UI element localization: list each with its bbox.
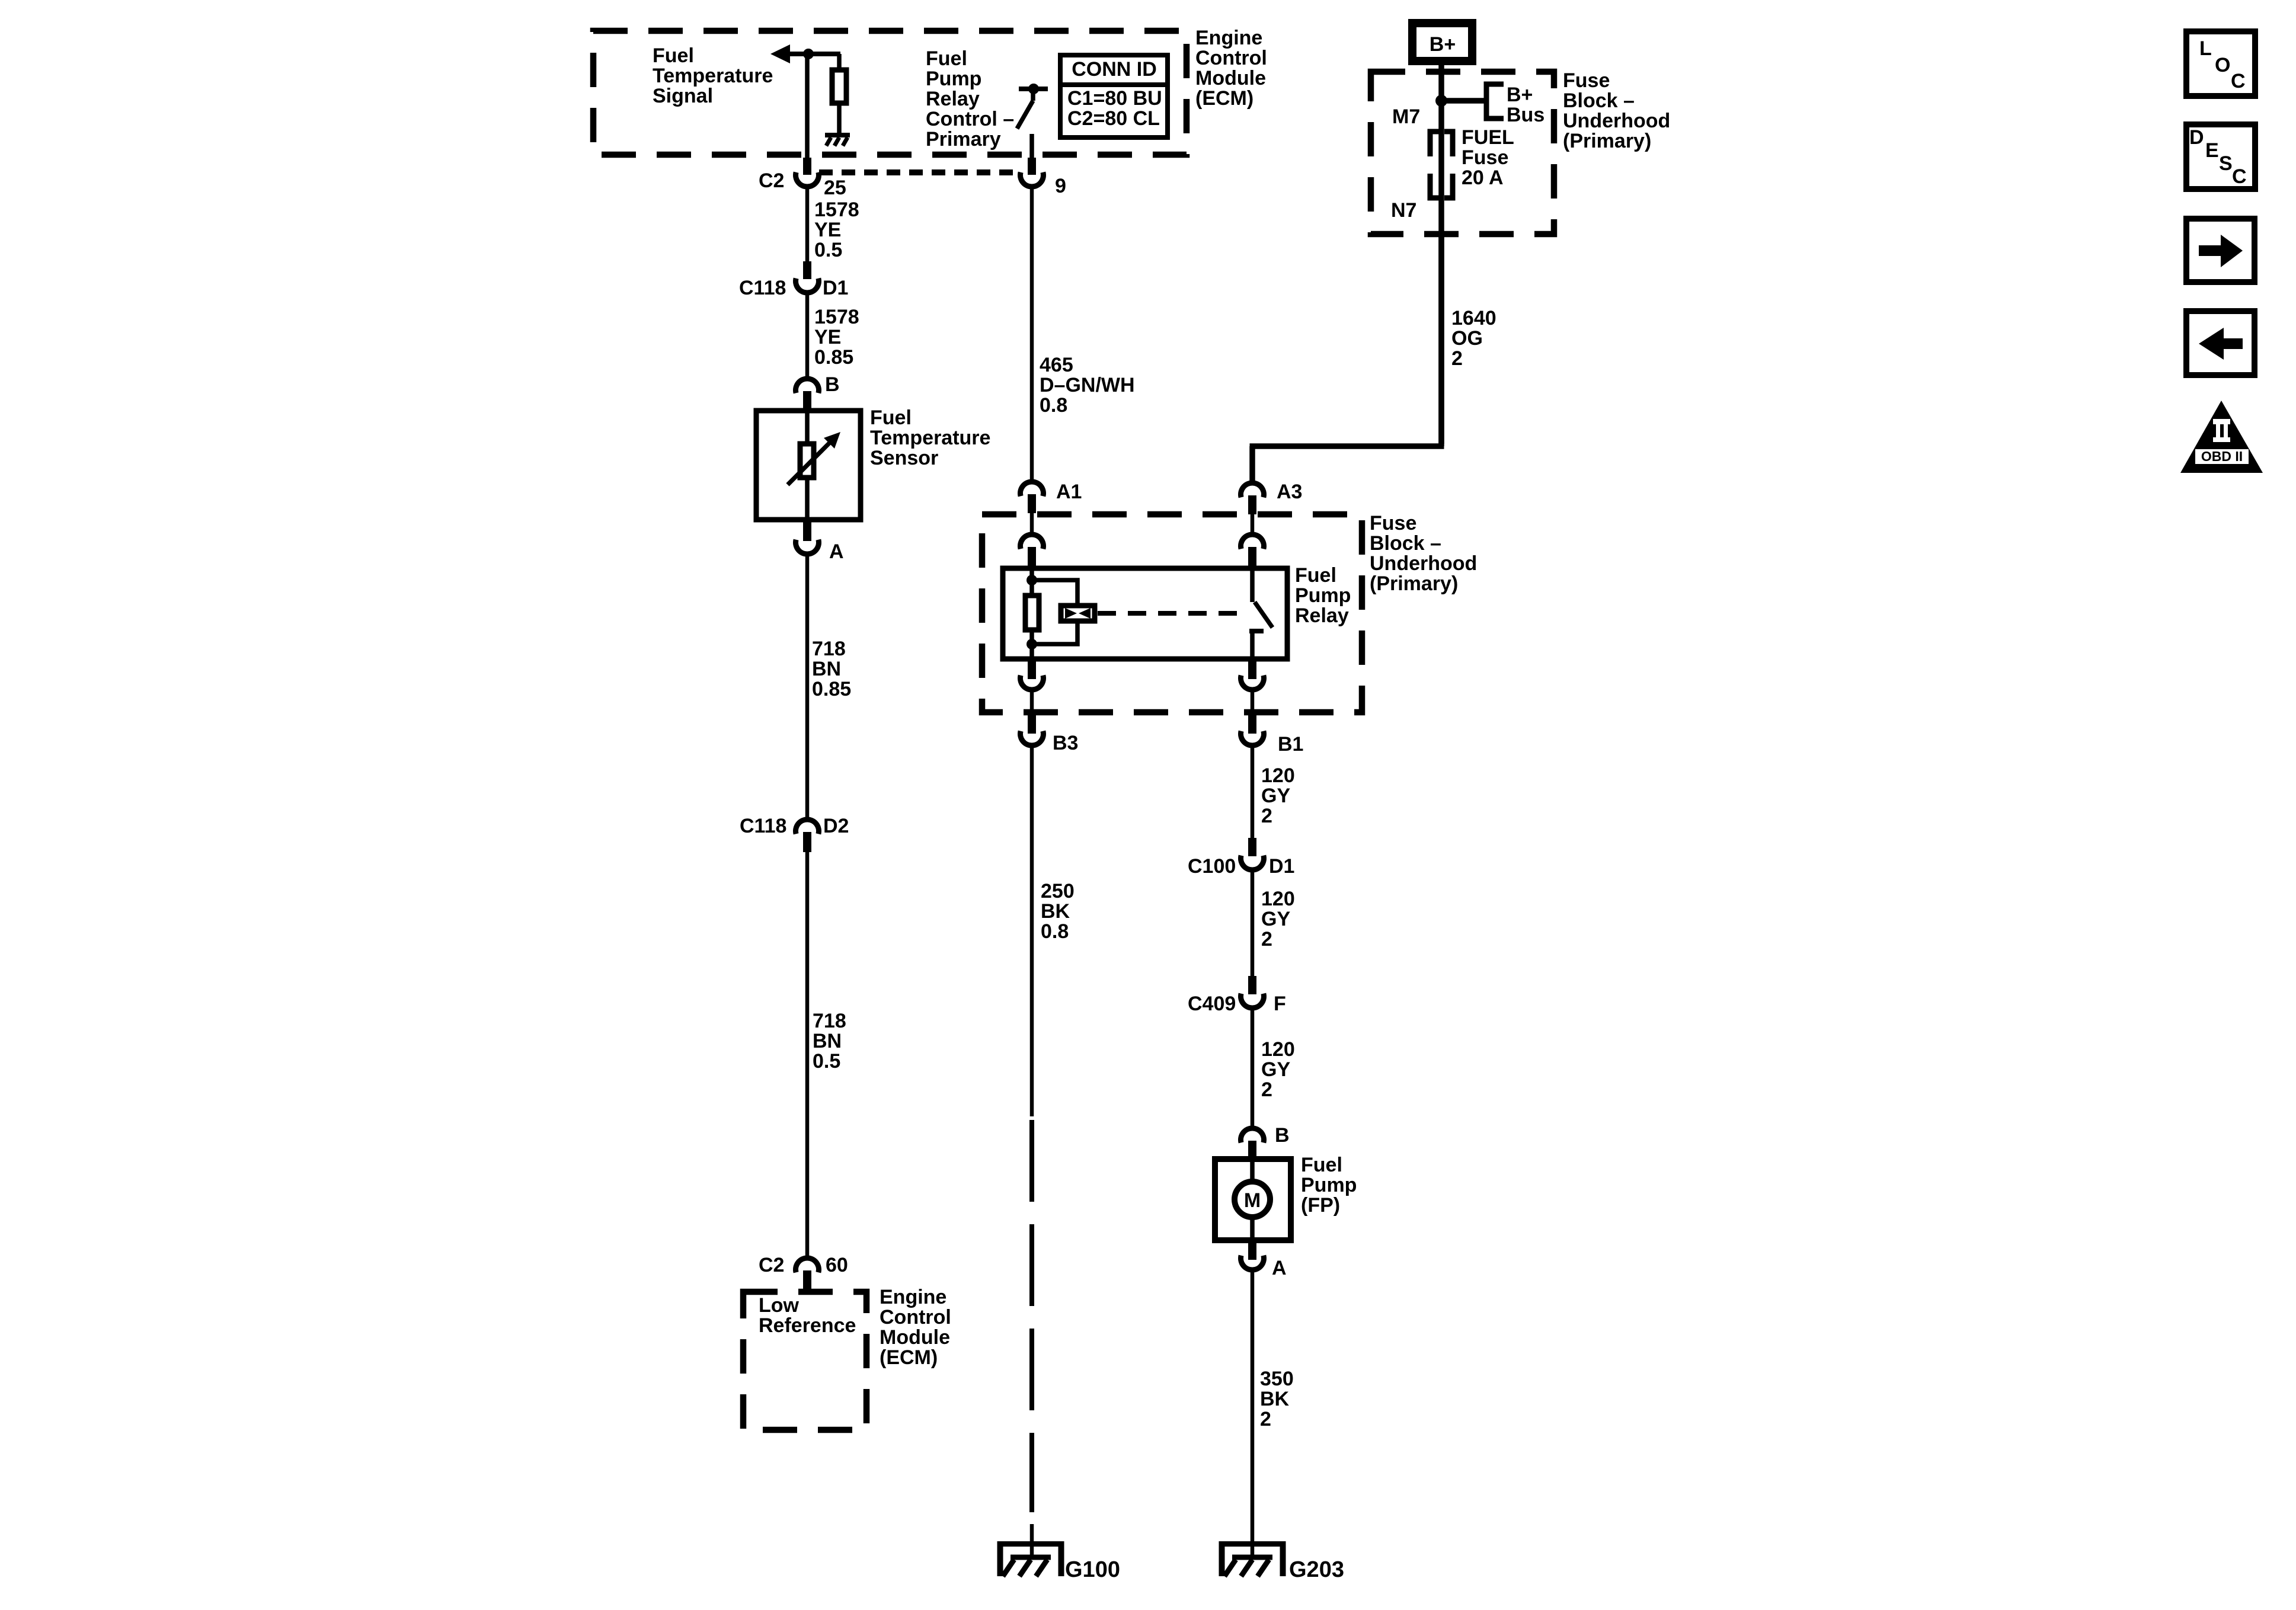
power symbol B+ xyxy=(1412,23,1472,61)
Fuse Block Underhood dashed box (top) xyxy=(1371,72,1554,234)
svg-text:B: B xyxy=(825,373,840,396)
svg-text:(Primary): (Primary) xyxy=(1563,130,1651,152)
wire: dashed actuator link to switch xyxy=(1098,611,1248,616)
svg-text:Relay: Relay xyxy=(1295,604,1349,627)
svg-text:FUEL: FUEL xyxy=(1462,126,1514,149)
label: wire 1578 YE 0.5 xyxy=(814,199,859,261)
wire: relay coil bottom lead xyxy=(1029,630,1034,659)
wire: sensor internal top xyxy=(805,408,810,443)
connector C2 pin 25 (ECM to harness) xyxy=(796,158,819,187)
svg-text:Fuse: Fuse xyxy=(1370,512,1416,534)
arrow: fuel temperature signal (points left) xyxy=(770,44,840,63)
ground: ECM internal ground symbol xyxy=(825,133,850,146)
component: Fuel Temperature Sensor box xyxy=(756,411,861,520)
svg-text:G100: G100 xyxy=(1065,1557,1120,1582)
svg-text:(ECM): (ECM) xyxy=(880,1346,938,1369)
wire: B+ feed through FUEL fuse xyxy=(1438,65,1444,446)
ground G203 xyxy=(1219,1541,1285,1576)
wire: 350 BK 2 (pump A to G203) xyxy=(1251,1270,1255,1558)
connector: relay coil terminal (bottom) xyxy=(1021,659,1044,690)
svg-text:D: D xyxy=(2189,126,2204,149)
svg-text:BK: BK xyxy=(1041,900,1070,923)
connector: relay coil terminal (top) xyxy=(1021,534,1044,566)
svg-text:Fuel: Fuel xyxy=(1301,1154,1342,1176)
wire: dotted link between connector C2 and pin 9 xyxy=(819,169,1016,175)
svg-text:Pump: Pump xyxy=(1301,1174,1357,1196)
connector: sensor pin A xyxy=(796,521,819,554)
svg-text:2: 2 xyxy=(1260,1408,1271,1430)
wire: 120 GY 2 (C409 to pump B) xyxy=(1251,1009,1255,1126)
svg-text:F: F xyxy=(1274,993,1286,1015)
label: Low Reference xyxy=(759,1294,856,1337)
svg-text:Temperature: Temperature xyxy=(870,427,990,449)
svg-text:Control: Control xyxy=(880,1306,951,1329)
svg-text:0.85: 0.85 xyxy=(814,346,853,369)
svg-text:120: 120 xyxy=(1261,764,1295,787)
relay: Fuel Pump Relay box xyxy=(1003,568,1287,659)
svg-text:Relay: Relay xyxy=(926,88,980,110)
svg-text:L: L xyxy=(2199,37,2212,60)
svg-text:25: 25 xyxy=(824,177,846,199)
icon: OBD II triangle xyxy=(2180,401,2263,473)
wire: A1 into relay xyxy=(1030,513,1034,533)
svg-text:Pump: Pump xyxy=(926,68,981,90)
svg-text:Fuel: Fuel xyxy=(870,406,912,429)
svg-text:C: C xyxy=(2231,70,2246,92)
wire: junction to pull-up resistor xyxy=(837,54,842,69)
svg-text:B+: B+ xyxy=(1507,84,1533,106)
wire: coil actuator branch loop xyxy=(1032,580,1077,605)
svg-text:C100: C100 xyxy=(1188,855,1236,878)
svg-text:2: 2 xyxy=(1451,347,1463,370)
svg-text:GY: GY xyxy=(1261,785,1290,807)
node: junction at B+ bus xyxy=(1435,95,1447,107)
icon: left arrow box xyxy=(2186,311,2255,375)
icon: right arrow box xyxy=(2186,219,2255,282)
svg-text:Engine: Engine xyxy=(880,1286,946,1308)
icon: LOC box xyxy=(2186,31,2255,96)
svg-text:BN: BN xyxy=(812,658,841,680)
svg-text:Primary: Primary xyxy=(926,128,1001,151)
svg-text:C2: C2 xyxy=(759,169,784,192)
svg-text:GY: GY xyxy=(1261,908,1290,930)
svg-text:Block –: Block – xyxy=(1370,532,1441,555)
node: junction dot on signal wire xyxy=(803,49,814,59)
svg-text:B+: B+ xyxy=(1430,33,1456,56)
svg-text:718: 718 xyxy=(812,638,846,660)
svg-text:350: 350 xyxy=(1260,1368,1294,1390)
wire: relay switch out to fuse block edge xyxy=(1251,690,1255,713)
svg-text:GY: GY xyxy=(1261,1058,1290,1081)
svg-text:2: 2 xyxy=(1261,928,1272,950)
svg-text:C118: C118 xyxy=(739,277,786,299)
svg-text:60: 60 xyxy=(826,1254,848,1276)
svg-text:YE: YE xyxy=(814,326,841,348)
wire: signal junction down to ECM pin C2-25 xyxy=(805,54,810,159)
svg-text:D1: D1 xyxy=(823,277,848,299)
svg-text:Fuse: Fuse xyxy=(1563,69,1610,92)
ECM dashed box (top) xyxy=(593,31,1187,155)
svg-text:Temperature: Temperature xyxy=(653,65,773,87)
wire: junction to B+ bus bracket xyxy=(1441,98,1485,104)
label: Engine Control Module (ECM) bottom xyxy=(880,1286,951,1369)
svg-text:Module: Module xyxy=(1195,67,1266,89)
label: wire 718 BN 0.5 xyxy=(813,1010,846,1073)
svg-text:Sensor: Sensor xyxy=(870,447,938,469)
wire: 250 BK 0.8 (B3 to G100, partly dashed) xyxy=(1030,746,1034,1116)
svg-text:Fuel: Fuel xyxy=(653,44,694,67)
svg-text:0.8: 0.8 xyxy=(1040,394,1067,417)
component: Fuel Pump box xyxy=(1215,1159,1291,1240)
Fuse Block Underhood dashed box (relay) xyxy=(982,514,1362,712)
ECM low reference dashed box xyxy=(743,1292,866,1430)
svg-text:C: C xyxy=(2232,165,2247,188)
svg-text:1578: 1578 xyxy=(814,306,859,328)
svg-text:0.5: 0.5 xyxy=(813,1050,840,1073)
svg-text:S: S xyxy=(2219,152,2233,175)
wire: 120 GY 2 (B1 to C100 D1) xyxy=(1251,746,1255,839)
wire: relay coil top lead xyxy=(1029,565,1034,594)
node: relay coil top junction xyxy=(1027,575,1037,585)
svg-text:OBD II: OBD II xyxy=(2201,449,2243,464)
svg-text:CONN ID: CONN ID xyxy=(1072,58,1157,81)
connector C118 pin D1 (in-line) xyxy=(796,261,819,293)
wire: 718 BN 0.85 (sensor A to C118 D2) xyxy=(805,555,810,818)
label: Fuel Pump (FP) xyxy=(1301,1154,1357,1217)
svg-text:2: 2 xyxy=(1261,1078,1272,1101)
svg-text:M7: M7 xyxy=(1392,105,1420,128)
svg-text:0.5: 0.5 xyxy=(814,239,842,261)
connector: fuel pump pin B xyxy=(1241,1128,1264,1157)
connector: sensor pin B xyxy=(796,379,819,409)
connector C118 pin D2 (in-line) xyxy=(796,820,819,852)
ground G100 xyxy=(997,1541,1064,1576)
svg-text:Pump: Pump xyxy=(1295,584,1351,607)
svg-text:N7: N7 xyxy=(1391,199,1416,222)
wire: pump internal top xyxy=(1250,1156,1255,1180)
svg-text:20 A: 20 A xyxy=(1462,167,1504,189)
connector: fuse block cavity B3 xyxy=(1021,715,1044,745)
motor: fuel pump motor circle M xyxy=(1235,1182,1270,1217)
label: wire 120 GY 2 (1) xyxy=(1261,764,1295,827)
label: wire 350 BK 2 xyxy=(1260,1368,1294,1430)
wire: 1578 YE 0.5 (C2-25 to C118 D1) xyxy=(805,187,810,263)
connector C2 pin 60 (ECM low reference) xyxy=(796,1258,819,1290)
svg-text:250: 250 xyxy=(1041,880,1075,902)
svg-text:D2: D2 xyxy=(823,815,849,837)
label: FUEL Fuse 20 A xyxy=(1462,126,1514,189)
svg-text:A: A xyxy=(1272,1257,1287,1279)
svg-text:BN: BN xyxy=(813,1030,842,1052)
node: relay coil bottom junction xyxy=(1027,639,1037,649)
label: Fuse Block - Underhood (Primary) top xyxy=(1563,69,1670,152)
svg-text:Block –: Block – xyxy=(1563,89,1635,112)
svg-text:OG: OG xyxy=(1451,327,1483,350)
label: B+ Bus xyxy=(1507,84,1544,126)
svg-text:C2=80 CL: C2=80 CL xyxy=(1067,107,1160,130)
svg-text:2: 2 xyxy=(1261,805,1272,827)
label: wire 1578 YE 0.85 xyxy=(814,306,859,369)
wire: 718 BN 0.5 (C118 D2 to ECM C2-60) xyxy=(805,852,810,1256)
switch: fuel pump relay control driver (inside ECM) xyxy=(1017,84,1048,159)
connector C409 pin F (in-line) xyxy=(1241,976,1264,1008)
switch: relay contacts xyxy=(1249,565,1272,659)
svg-text:0.85: 0.85 xyxy=(812,678,851,700)
svg-text:BK: BK xyxy=(1260,1388,1290,1410)
wire: relay coil out to fuse block edge xyxy=(1030,690,1034,713)
svg-text:B3: B3 xyxy=(1053,732,1078,754)
svg-text:A3: A3 xyxy=(1277,481,1302,503)
label: Fuel Temperature Sensor xyxy=(870,406,990,469)
label: Fuel Pump Relay xyxy=(1295,564,1351,627)
svg-text:Reference: Reference xyxy=(759,1314,856,1337)
svg-text:Underhood: Underhood xyxy=(1563,110,1670,132)
label: wire 120 GY 2 (2) xyxy=(1261,888,1295,950)
fuse: FUEL Fuse 20 A holder symbol xyxy=(1430,132,1453,198)
connector: fuse block cavity B1 xyxy=(1241,715,1264,745)
wire: 465 D-GN/WH 0.8 (pin 9 to relay A1) xyxy=(1030,187,1034,480)
svg-text:465: 465 xyxy=(1040,354,1073,376)
svg-text:C409: C409 xyxy=(1188,993,1236,1015)
wire: pump internal bottom xyxy=(1250,1218,1255,1243)
resistor: relay coil xyxy=(1025,596,1039,630)
svg-text:C1=80 BU: C1=80 BU xyxy=(1067,87,1162,110)
svg-text:1640: 1640 xyxy=(1451,307,1496,329)
connector: relay switch terminal (bottom) xyxy=(1241,659,1264,690)
svg-text:0.8: 0.8 xyxy=(1041,920,1069,943)
svg-text:M: M xyxy=(1244,1189,1261,1212)
svg-text:B1: B1 xyxy=(1278,733,1303,756)
svg-text:A: A xyxy=(829,540,844,563)
svg-text:1578: 1578 xyxy=(814,199,859,221)
label: Fuel Pump Relay Control - Primary xyxy=(926,47,1014,151)
svg-text:A1: A1 xyxy=(1056,481,1082,503)
svg-text:(Primary): (Primary) xyxy=(1370,572,1458,595)
wire: pull-up resistor to internal ground xyxy=(837,105,842,134)
svg-text:O: O xyxy=(2215,54,2230,76)
svg-text:718: 718 xyxy=(813,1010,846,1032)
B+ Bus bracket xyxy=(1486,84,1504,119)
svg-text:(FP): (FP) xyxy=(1301,1194,1340,1217)
svg-text:Signal: Signal xyxy=(653,85,713,107)
svg-text:D1: D1 xyxy=(1269,855,1294,878)
svg-text:Fuel: Fuel xyxy=(926,47,967,70)
relay actuator symbol (box with bowtie) xyxy=(1061,606,1095,621)
svg-text:120: 120 xyxy=(1261,1038,1295,1061)
wire: feed from fuse to A3 (1640 OG 2) xyxy=(1438,234,1444,444)
svg-text:B: B xyxy=(1275,1124,1290,1147)
wire: 120 GY 2 (C100 to C409) xyxy=(1251,870,1255,977)
connector C100 pin D1 (in-line) xyxy=(1241,838,1264,870)
connector: fuse block cavity A1 xyxy=(1021,482,1044,513)
svg-text:G203: G203 xyxy=(1289,1557,1344,1582)
svg-text:E: E xyxy=(2205,139,2219,162)
label: Engine Control Module (ECM) top xyxy=(1195,27,1267,110)
connector: ECM pin 9 xyxy=(1021,158,1044,187)
svg-text:120: 120 xyxy=(1261,888,1295,910)
svg-text:Control –: Control – xyxy=(926,108,1014,130)
connector: fuse block cavity A3 xyxy=(1241,483,1264,514)
label: wire 465 D-GN/WH 0.8 xyxy=(1040,354,1135,417)
resistor: ECM internal pull-up xyxy=(832,70,846,103)
label: wire 250 BK 0.8 xyxy=(1041,880,1075,943)
label: Fuel Temperature Signal xyxy=(653,44,773,107)
svg-text:Module: Module xyxy=(880,1326,950,1349)
svg-text:Bus: Bus xyxy=(1507,104,1544,126)
connector: fuel pump pin A xyxy=(1241,1242,1264,1270)
label: wire 1640 OG 2 xyxy=(1451,307,1496,370)
box: CONN ID table xyxy=(1058,55,1170,137)
wire: sensor internal bottom xyxy=(805,479,810,522)
svg-text:C2: C2 xyxy=(759,1254,784,1276)
svg-text:9: 9 xyxy=(1055,175,1066,197)
svg-text:Fuse: Fuse xyxy=(1462,146,1508,169)
svg-text:D–GN/WH: D–GN/WH xyxy=(1040,374,1135,396)
connector: relay switch terminal (top) xyxy=(1241,534,1264,566)
svg-text:Underhood: Underhood xyxy=(1370,552,1477,575)
svg-text:Control: Control xyxy=(1195,47,1267,69)
svg-text:Low: Low xyxy=(759,1294,800,1317)
label: wire 120 GY 2 (3) xyxy=(1261,1038,1295,1101)
svg-text:(ECM): (ECM) xyxy=(1195,87,1253,110)
svg-text:Engine: Engine xyxy=(1195,27,1262,49)
svg-text:C118: C118 xyxy=(740,815,786,837)
resistor: fuel temperature sensor thermistor xyxy=(800,444,814,478)
arrow: thermistor variable arrow xyxy=(788,432,840,485)
wire: A3 into relay switch xyxy=(1251,514,1255,533)
label: wire 718 BN 0.85 xyxy=(812,638,851,700)
svg-text:Fuel: Fuel xyxy=(1295,564,1336,587)
label: Fuse Block - Underhood (Primary) right of relay box xyxy=(1370,512,1477,595)
svg-text:YE: YE xyxy=(814,219,841,241)
icon: DESC box xyxy=(2186,124,2255,189)
wire: 1578 YE 0.85 (C118 D1 to sensor pin B) xyxy=(805,293,810,377)
